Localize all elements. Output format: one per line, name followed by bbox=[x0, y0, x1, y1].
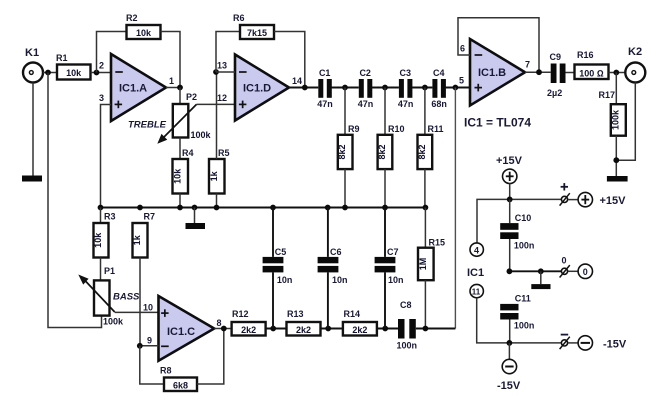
wire pin11 down to -15V rail bbox=[477, 298, 510, 343]
wire R5 top to pin13 node bbox=[216, 72, 218, 159]
resistor R7 bbox=[132, 212, 155, 346]
resistor R16 bbox=[575, 50, 609, 79]
node R14/C7 bbox=[382, 326, 388, 332]
wire input node down to P1 bottom bbox=[48, 73, 102, 328]
wire P1 wiper to IC1.C pin 10 bbox=[115, 311, 159, 313]
resistor R15 bbox=[418, 208, 445, 329]
svg-text:47n: 47n bbox=[398, 99, 414, 109]
svg-text:-15V: -15V bbox=[497, 380, 521, 392]
wire pin9 bbox=[140, 345, 159, 347]
svg-text:R9: R9 bbox=[348, 124, 360, 134]
node IC1.A output bbox=[177, 85, 183, 91]
node pin9 bbox=[137, 343, 143, 349]
svg-text:100n: 100n bbox=[514, 321, 535, 331]
svg-text:R8: R8 bbox=[160, 366, 172, 376]
svg-text:8: 8 bbox=[217, 318, 222, 328]
wire C9 to R16 bbox=[566, 72, 575, 74]
svg-text:9: 9 bbox=[147, 336, 152, 346]
node K2 bbox=[613, 70, 619, 76]
wire node up to R6 bbox=[216, 32, 240, 73]
svg-text:100n: 100n bbox=[514, 241, 535, 251]
connector K2 bbox=[625, 46, 645, 83]
resistor R8 bbox=[160, 366, 197, 392]
supply +15V source circle bbox=[496, 155, 523, 184]
svg-text:R10: R10 bbox=[388, 124, 405, 134]
resistor R1 bbox=[56, 53, 91, 80]
node after C3 bbox=[422, 85, 428, 91]
capacitor C1 bbox=[317, 68, 333, 109]
resistor R10 bbox=[377, 88, 405, 208]
wire pin5 node down to bottom chain bbox=[454, 88, 456, 329]
wire +15V circle to rail bbox=[509, 184, 511, 200]
svg-text:P1: P1 bbox=[104, 266, 115, 276]
svg-text:8k2: 8k2 bbox=[417, 144, 427, 159]
svg-text:K2: K2 bbox=[628, 46, 642, 58]
terminal +15V (slash circle) bbox=[560, 183, 570, 206]
wire IC1.D output bbox=[289, 87, 318, 89]
svg-text:R5: R5 bbox=[218, 148, 230, 158]
svg-text:IC1: IC1 bbox=[467, 267, 484, 279]
svg-text:100k: 100k bbox=[103, 317, 124, 327]
ground (mid rail) bbox=[186, 208, 206, 230]
supply circle 0 right bbox=[578, 264, 592, 278]
capacitor C7 bbox=[375, 208, 404, 329]
svg-text:2k2: 2k2 bbox=[241, 325, 256, 335]
node after C2 bbox=[382, 85, 388, 91]
node rail R7 bbox=[137, 205, 143, 211]
capacitor C3 bbox=[398, 68, 414, 109]
svg-text:R2: R2 bbox=[126, 13, 138, 23]
svg-text:R11: R11 bbox=[428, 124, 444, 134]
supply circle -15V right bbox=[578, 336, 627, 351]
resistor R14 bbox=[343, 309, 377, 336]
capacitor C4 bbox=[431, 68, 447, 109]
svg-text:TREBLE: TREBLE bbox=[128, 120, 167, 131]
wire stub to +15V circle bbox=[568, 199, 578, 201]
wire IC1.C output bbox=[214, 328, 231, 330]
svg-text:47n: 47n bbox=[317, 99, 333, 109]
svg-text:1k: 1k bbox=[209, 170, 219, 181]
svg-text:C10: C10 bbox=[515, 213, 532, 223]
svg-text:R15: R15 bbox=[429, 238, 446, 248]
svg-text:IC1.C: IC1.C bbox=[167, 326, 195, 338]
svg-text:R6: R6 bbox=[233, 13, 245, 23]
svg-text:0: 0 bbox=[562, 256, 567, 266]
svg-text:10n: 10n bbox=[388, 275, 404, 285]
svg-text:IC1.B: IC1.B bbox=[478, 67, 506, 79]
node -15V rail bbox=[507, 340, 513, 346]
svg-text:BASS: BASS bbox=[113, 292, 140, 303]
ground (0V) bbox=[531, 271, 550, 289]
wire R4 bottom to rail bbox=[179, 194, 181, 208]
wire K2 down to R17 bottom node bbox=[616, 83, 635, 161]
svg-text:+15V: +15V bbox=[600, 195, 627, 207]
svg-text:K1: K1 bbox=[25, 47, 39, 59]
wire R6 to IC1.D output node bbox=[274, 32, 305, 88]
node rail R5 bbox=[214, 205, 220, 211]
wire K1 to R1 bbox=[43, 72, 57, 74]
svg-text:2: 2 bbox=[99, 61, 104, 71]
wire output node down to P2 bbox=[179, 88, 181, 105]
svg-text:0: 0 bbox=[583, 267, 588, 277]
ground (below K1) bbox=[22, 176, 42, 182]
svg-text:7: 7 bbox=[525, 60, 530, 70]
node C10/C11 bbox=[507, 268, 513, 274]
svg-text:8k2: 8k2 bbox=[377, 144, 387, 159]
supply -15V source circle bbox=[497, 343, 521, 392]
wire P2 wiper to IC1.D pin 12 bbox=[197, 103, 236, 105]
wire R8 to IC1.C output node bbox=[197, 329, 224, 385]
node rail R9 bbox=[342, 205, 348, 211]
svg-text:10k: 10k bbox=[66, 68, 82, 78]
op-amp IC1.A bbox=[99, 54, 174, 121]
node pin13 bbox=[213, 69, 219, 75]
wire C8 to pin5 vertical bbox=[416, 328, 456, 330]
svg-text:1: 1 bbox=[169, 76, 174, 86]
terminal 0 (slash circle) bbox=[560, 256, 570, 278]
svg-text:C8: C8 bbox=[400, 300, 412, 310]
wire pin13 bbox=[216, 71, 235, 73]
svg-text:10n: 10n bbox=[277, 275, 293, 285]
svg-text:C4: C4 bbox=[433, 68, 445, 78]
svg-text:IC1 = TL074: IC1 = TL074 bbox=[464, 116, 531, 130]
svg-text:IC1.A: IC1.A bbox=[119, 83, 147, 95]
svg-text:2k2: 2k2 bbox=[296, 325, 311, 335]
svg-text:10k: 10k bbox=[136, 28, 152, 38]
svg-text:1M: 1M bbox=[418, 258, 428, 271]
potentiometer P1 bbox=[78, 266, 140, 327]
node rail R11/R15 bbox=[423, 205, 429, 211]
svg-text:47n: 47n bbox=[358, 99, 374, 109]
svg-text:R7: R7 bbox=[144, 212, 156, 222]
resistor R3 bbox=[93, 208, 116, 281]
capacitor C5 bbox=[263, 208, 293, 329]
resistor R5 bbox=[209, 148, 230, 194]
ground (output) bbox=[607, 176, 628, 182]
wire C3 to C4 bbox=[412, 87, 433, 89]
node IC1.C output bbox=[221, 326, 227, 332]
svg-text:6: 6 bbox=[460, 44, 465, 54]
wire C4 to IC1.B pin 5 bbox=[445, 87, 470, 89]
node rail C5 bbox=[270, 205, 276, 211]
svg-text:C6: C6 bbox=[330, 247, 342, 257]
resistor R17 bbox=[599, 73, 626, 177]
svg-text:IC1.D: IC1.D bbox=[243, 83, 271, 95]
op-amp IC1.C bbox=[143, 296, 222, 361]
connector K1 bbox=[23, 47, 43, 83]
wire C1 to C2 bbox=[331, 87, 359, 89]
svg-text:13: 13 bbox=[217, 61, 227, 71]
svg-text:R13: R13 bbox=[287, 309, 304, 319]
node R17 bottom bbox=[613, 157, 619, 163]
svg-text:100n: 100n bbox=[397, 341, 418, 351]
wire K1 down to ground bbox=[32, 83, 34, 176]
op-amp IC1.B bbox=[459, 39, 530, 106]
svg-text:10k: 10k bbox=[172, 168, 182, 184]
svg-text:10k: 10k bbox=[93, 232, 103, 248]
resistor R11 bbox=[417, 88, 444, 208]
resistor R4 bbox=[172, 148, 193, 194]
potentiometer P2 bbox=[128, 92, 212, 144]
node after C1 bbox=[342, 85, 348, 91]
wire -15V rail bbox=[509, 342, 561, 344]
svg-text:4: 4 bbox=[474, 245, 479, 255]
wire stub to -15V circle bbox=[568, 342, 578, 344]
node rail R4 bbox=[177, 205, 183, 211]
resistor R13 bbox=[287, 309, 321, 336]
wire pin9 node down to R8 bbox=[140, 346, 164, 384]
resistor R2 bbox=[126, 13, 161, 39]
wire IC1.B output bbox=[525, 71, 551, 73]
capacitor C10 bbox=[500, 199, 534, 271]
node IC1.D output bbox=[302, 85, 308, 91]
svg-text:C3: C3 bbox=[400, 68, 412, 78]
op-amp IC1.D bbox=[217, 55, 302, 121]
svg-text:1k: 1k bbox=[132, 234, 142, 245]
wire R12 to R13 bbox=[266, 328, 287, 330]
svg-text:2k2: 2k2 bbox=[352, 325, 367, 335]
node input junction bbox=[45, 70, 51, 76]
capacitor C9 bbox=[547, 52, 566, 98]
svg-text:68n: 68n bbox=[431, 99, 447, 109]
node R12/C5 bbox=[270, 326, 276, 332]
svg-text:7k15: 7k15 bbox=[247, 28, 267, 38]
wire +15V rail bbox=[477, 199, 562, 243]
wire R2 to IC1.A output node bbox=[161, 32, 181, 88]
svg-text:R14: R14 bbox=[344, 309, 361, 319]
svg-text:100 Ω: 100 Ω bbox=[579, 68, 604, 78]
capacitor C6 bbox=[318, 208, 348, 329]
resistor R9 bbox=[337, 88, 359, 208]
svg-text:R4: R4 bbox=[182, 148, 194, 158]
svg-text:11: 11 bbox=[472, 287, 481, 296]
wire P2 bottom to R4 bbox=[179, 138, 181, 160]
node rail R10/C7 bbox=[382, 205, 388, 211]
terminal -15V (slash circle) bbox=[560, 335, 570, 350]
wire node up to R2 bbox=[97, 32, 127, 73]
wire R13 to R14 bbox=[321, 328, 343, 330]
svg-text:6k8: 6k8 bbox=[173, 380, 188, 390]
svg-text:5: 5 bbox=[459, 76, 464, 86]
wire 0V rail bbox=[509, 270, 561, 272]
node pin2 bbox=[94, 70, 100, 76]
wire R16 to K2 bbox=[609, 72, 626, 74]
svg-text:-15V: -15V bbox=[603, 338, 627, 350]
svg-text:12: 12 bbox=[217, 93, 227, 103]
wire ground rail bbox=[101, 207, 426, 209]
pin circle 4 of IC1 bbox=[470, 243, 483, 256]
svg-text:C11: C11 bbox=[515, 294, 531, 304]
node C8/R15 bbox=[423, 326, 429, 332]
svg-text:10n: 10n bbox=[332, 275, 348, 285]
svg-text:8k2: 8k2 bbox=[337, 144, 347, 159]
svg-text:C1: C1 bbox=[319, 68, 331, 78]
wire R1 to IC1.A pin 2 bbox=[91, 72, 112, 74]
svg-text:R1: R1 bbox=[56, 53, 68, 63]
svg-text:R16: R16 bbox=[577, 50, 594, 60]
resistor R6 bbox=[233, 13, 274, 39]
node R13/C6 bbox=[325, 326, 331, 332]
svg-text:R3: R3 bbox=[104, 212, 116, 222]
svg-text:C5: C5 bbox=[275, 247, 287, 257]
svg-text:14: 14 bbox=[292, 76, 302, 86]
resistor R12 bbox=[232, 309, 266, 336]
node rail pin3/R3 bbox=[98, 205, 104, 211]
svg-text:C7: C7 bbox=[387, 247, 399, 257]
node +15V rail bbox=[507, 197, 513, 203]
svg-text:P2: P2 bbox=[186, 92, 197, 102]
svg-text:+15V: +15V bbox=[496, 155, 523, 167]
svg-text:100k: 100k bbox=[610, 109, 620, 130]
svg-text:2µ2: 2µ2 bbox=[547, 88, 562, 98]
wire R14 to C8 bbox=[377, 328, 398, 330]
node pin5 bbox=[453, 85, 459, 91]
capacitor C8 bbox=[397, 300, 418, 351]
wire stub to 0 circle bbox=[568, 270, 578, 272]
svg-text:R17: R17 bbox=[599, 90, 616, 100]
svg-text:C9: C9 bbox=[550, 52, 562, 62]
node ground 0V bbox=[538, 268, 544, 274]
svg-text:100k: 100k bbox=[191, 130, 212, 140]
svg-text:3: 3 bbox=[99, 93, 104, 103]
node rail C6 bbox=[325, 205, 331, 211]
pin circle 11 of IC1 bbox=[470, 284, 483, 297]
wire IC1.A output bbox=[166, 87, 180, 89]
supply circle +15V right bbox=[578, 192, 626, 207]
capacitor C2 bbox=[358, 68, 374, 109]
wire R5 bottom to rail bbox=[216, 194, 218, 208]
node rail ground bbox=[192, 205, 198, 211]
node IC1.B output bbox=[536, 69, 542, 75]
svg-text:R12: R12 bbox=[232, 309, 249, 319]
wire pin3 of IC1.A down to rail bbox=[101, 105, 112, 208]
wire IC1.B feedback loop bbox=[458, 18, 539, 72]
wire C2 to C3 bbox=[372, 87, 399, 89]
svg-text:C2: C2 bbox=[359, 68, 371, 78]
capacitor C11 bbox=[500, 294, 534, 343]
svg-text:10: 10 bbox=[143, 303, 153, 313]
